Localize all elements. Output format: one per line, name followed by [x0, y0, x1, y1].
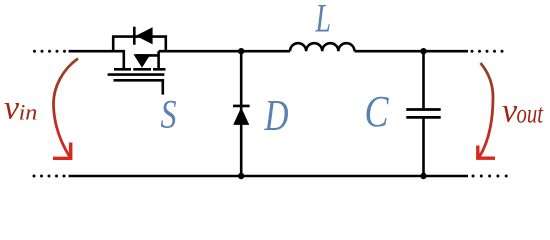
node: junction of diode D branch on bottom rail	[238, 173, 244, 179]
transistor S gate bar	[108, 73, 165, 76]
capacitor C top plate	[406, 108, 440, 111]
diode D triangle (points up)	[233, 107, 249, 125]
capacitor C bottom plate	[406, 116, 440, 119]
body diode cathode bar	[133, 27, 136, 45]
svg-text:out: out	[517, 97, 545, 128]
node: junction of capacitor C branch on bottom rail	[420, 173, 426, 179]
transistor S gate lead (L-shape down)	[114, 80, 163, 94]
diode D cathode bar	[233, 105, 250, 108]
svg-text:C: C	[365, 87, 389, 136]
wire: top-left dotted lead-in	[33, 50, 66, 53]
svg-text:S: S	[161, 91, 177, 136]
transistor S source stub and arrow link	[136, 51, 159, 69]
svg-text:D: D	[264, 91, 289, 140]
svg-text:in: in	[19, 100, 38, 125]
wire: top rail from inductor to right dots	[355, 50, 469, 53]
wire: top rail left segment into drain of S	[69, 51, 124, 69]
wire: top-right dotted lead-out	[471, 50, 504, 53]
node: junction of diode D branch on top rail	[238, 48, 244, 54]
wire: top rail from source of S to inductor	[159, 50, 290, 53]
wire: capacitor C branch bottom	[422, 118, 425, 176]
node: junction of capacitor C branch on top rail	[420, 48, 426, 54]
inductor L (4 humps)	[290, 43, 354, 51]
wire: diode D branch vertical	[240, 51, 243, 176]
svg-text:v: v	[4, 89, 20, 126]
svg-text:L: L	[315, 0, 331, 40]
wire: bottom-left dotted lead-in	[33, 175, 66, 178]
body diode of S: left riser, top loop, right riser	[113, 37, 166, 52]
transistor S (power MOSFET) channel plates	[114, 68, 166, 71]
transistor S body arrow (points down)	[134, 54, 151, 68]
body diode triangle (points left)	[136, 27, 153, 44]
vin arrow (input voltage, curved, points down-right)	[53, 59, 78, 159]
wire: bottom-right dotted lead-out	[472, 175, 508, 178]
wire: bottom rail	[69, 175, 469, 178]
wire: capacitor C branch top	[422, 51, 425, 109]
vout arrow (output voltage, curved, points down-left)	[478, 63, 495, 158]
